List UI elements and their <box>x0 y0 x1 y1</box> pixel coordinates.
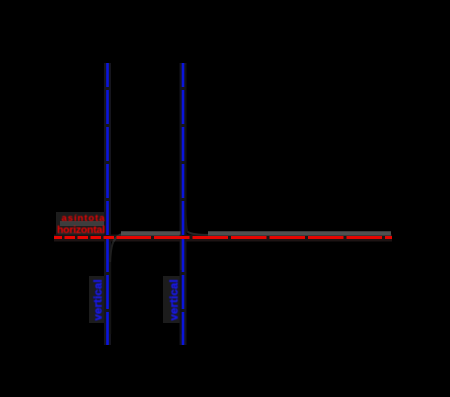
curve middle branch: deep hug of right asymptote <box>180 270 182 334</box>
inter-line gray smear of red label <box>60 221 105 226</box>
vertical asymptote x=-1 (blue dashed) <box>106 63 109 345</box>
curve middle branch: crossing diagonal <box>114 234 124 242</box>
horizontal asymptote (red dashed), right segment long dashes <box>120 236 392 239</box>
curve right branch: descending diagonal <box>188 232 209 235</box>
curve middle branch: flat band over red line <box>121 231 181 235</box>
halo of left vertical asymptote <box>104 63 111 345</box>
label backing halo (right blue label) <box>163 276 180 323</box>
label backing halo (red text area) <box>56 212 106 238</box>
svg-text:vertical: vertical <box>169 280 181 321</box>
curve middle branch: rise toward crossing <box>110 242 113 263</box>
curve right branch: flat band over red line <box>208 231 391 235</box>
curve middle branch: plunge at right asymptote <box>180 235 183 271</box>
label backing halo (left blue label) <box>89 276 106 323</box>
svg-text:asíntota: asíntota <box>62 213 106 224</box>
vertical asymptote x=2 (blue dashed) <box>182 63 185 345</box>
halo of right vertical asymptote <box>180 63 187 345</box>
curve middle branch: deep hug of left asymptote <box>109 262 111 334</box>
svg-text:vertical: vertical <box>93 280 105 321</box>
halo of horizontal asymptote <box>54 235 392 242</box>
curve right branch: bend <box>186 210 188 232</box>
horizontal asymptote (red dashed), left segment short dashes <box>54 236 120 239</box>
curve right branch: hug of right asymptote top <box>185 65 187 210</box>
svg-text:horizontal: horizontal <box>57 224 105 236</box>
